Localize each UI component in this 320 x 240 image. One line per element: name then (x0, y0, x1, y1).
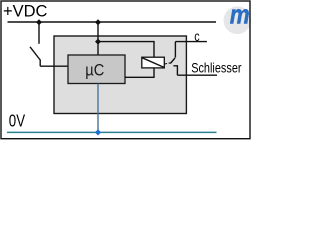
switch S1 fixed terminal (38, 22, 40, 44)
wire junction to relay coil top (98, 42, 154, 58)
wire c terminal (175, 41, 207, 43)
relay coil K1 (142, 57, 165, 68)
module outer box (54, 36, 186, 114)
border frame (1, 1, 250, 139)
wire +VDC rail (8, 21, 217, 23)
relay contact NO terminal hook (173, 66, 177, 75)
node ground junction (blue) (95, 129, 101, 135)
svg-text:c: c (194, 29, 199, 44)
wire Schliesser terminal (177, 74, 217, 76)
node coil feed junction (95, 39, 101, 45)
wire uC ground (blue) (97, 84, 99, 133)
microcontroller uC box (68, 55, 125, 84)
svg-text:Schliesser: Schliesser (191, 60, 241, 76)
switch S1 blade (open) (30, 47, 40, 60)
relay contact common terminal (174, 42, 176, 58)
wire rail to uC top (97, 22, 99, 55)
svg-text:0V: 0V (9, 112, 26, 131)
svg-text:µC: µC (85, 62, 104, 80)
relay coil diagonal (142, 58, 164, 68)
wire coil bottom to uC output (125, 68, 154, 77)
node uC supply junction (95, 19, 101, 25)
relay contact blade (170, 58, 175, 64)
relay linkage (dashed) (165, 63, 171, 64)
svg-text:m: m (230, 1, 250, 30)
wire 0V rail (blue) (7, 131, 217, 133)
svg-text:+VDC: +VDC (3, 2, 48, 20)
wire switch to uC input (40, 65, 68, 67)
logo circle (mikrocontroller.net) (224, 6, 252, 34)
node switch junction (36, 19, 42, 25)
switch S1 lower terminal stub (39, 60, 41, 67)
